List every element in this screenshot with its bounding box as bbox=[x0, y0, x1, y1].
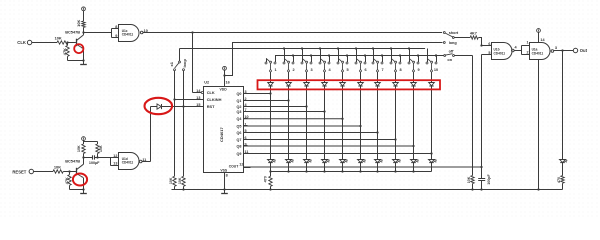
LED LED7 bbox=[375, 160, 381, 163]
wire bbox=[288, 163, 290, 172]
switch SW10 bbox=[427, 49, 429, 63]
wire bus (switch commons) bbox=[275, 55, 444, 57]
wire bbox=[342, 86, 344, 160]
svg-text:470: 470 bbox=[557, 177, 561, 183]
LED LED6 bbox=[358, 160, 364, 163]
power +V terminal bbox=[82, 7, 86, 11]
pin 15 RST wire bbox=[162, 106, 204, 108]
wire bbox=[84, 32, 112, 34]
wire bbox=[306, 72, 308, 83]
svg-text:10K: 10K bbox=[178, 177, 182, 184]
wire (to CD4017 CLK) bbox=[192, 33, 194, 93]
svg-text:long: long bbox=[449, 41, 458, 45]
pin 13 CLKINH wire bbox=[175, 99, 204, 101]
wire bbox=[360, 86, 362, 160]
svg-text:Q8: Q8 bbox=[236, 144, 241, 148]
svg-text:470: 470 bbox=[264, 176, 268, 182]
svg-text:2: 2 bbox=[293, 68, 295, 72]
IC U2 CD4017 body bbox=[204, 87, 244, 173]
svg-text:U2: U2 bbox=[204, 80, 209, 84]
wire bbox=[83, 33, 85, 35]
diode D8 bbox=[375, 83, 381, 86]
diode D7 bbox=[358, 83, 364, 86]
svg-text:VDD: VDD bbox=[220, 88, 228, 92]
svg-text:Q7: Q7 bbox=[236, 138, 241, 142]
svg-text:short: short bbox=[449, 31, 459, 35]
ground bbox=[83, 61, 85, 65]
resistor R12 10K (debounce) bbox=[471, 176, 474, 184]
wire bbox=[454, 37, 470, 39]
svg-text:10: 10 bbox=[434, 68, 438, 72]
svg-text:CD4011: CD4011 bbox=[122, 32, 134, 36]
wire bbox=[395, 163, 397, 172]
diode D10 bbox=[411, 83, 417, 86]
svg-text:10K: 10K bbox=[99, 145, 103, 152]
svg-text:47K: 47K bbox=[62, 48, 67, 55]
pin 14 CLK input bbox=[201, 91, 203, 93]
svg-text:COUT: COUT bbox=[229, 164, 240, 168]
resistor R8 47K (RESET pulldown) bbox=[69, 172, 71, 175]
svg-text:Q4: Q4 bbox=[236, 117, 242, 121]
svg-text:CLK: CLK bbox=[17, 40, 26, 45]
wire bbox=[431, 163, 433, 172]
svg-text:on: on bbox=[447, 58, 452, 62]
wire (U1c out to short contact) bbox=[143, 32, 442, 34]
svg-text:100pF: 100pF bbox=[487, 174, 491, 185]
svg-text:off: off bbox=[449, 50, 455, 54]
annotation red circle (Q2 emitter) bbox=[73, 174, 87, 186]
resistor R1 10K (CLK base) bbox=[57, 41, 68, 44]
svg-text:1: 1 bbox=[275, 68, 277, 72]
svg-text:9: 9 bbox=[418, 68, 420, 72]
VDD pin16 riser bbox=[224, 70, 226, 86]
diode D3 bbox=[286, 83, 292, 86]
wire bbox=[306, 163, 308, 172]
svg-text:4: 4 bbox=[515, 46, 518, 50]
wire bbox=[68, 42, 76, 44]
diode D9 bbox=[393, 83, 399, 86]
wire bbox=[377, 86, 379, 160]
svg-text:CD4011: CD4011 bbox=[122, 161, 134, 165]
svg-text:5: 5 bbox=[347, 68, 349, 72]
svg-text:Q6: Q6 bbox=[236, 131, 241, 135]
op-amp U1d CD4011 NAND inverter bbox=[110, 158, 112, 166]
resistor R7 10K (RESET base) bbox=[53, 170, 63, 173]
power +V (VDD) bbox=[223, 66, 227, 70]
wire bbox=[83, 158, 85, 165]
LED LED10 bbox=[429, 160, 435, 163]
diode D4 bbox=[304, 83, 310, 86]
svg-text:4: 4 bbox=[329, 68, 332, 72]
capacitor C2 100pF bbox=[478, 178, 485, 180]
svg-text:10K: 10K bbox=[169, 177, 173, 184]
LED LED3 bbox=[304, 160, 310, 163]
svg-text:RESET: RESET bbox=[12, 169, 26, 174]
output terminal Out bbox=[573, 48, 577, 52]
svg-text:BC547B: BC547B bbox=[65, 29, 80, 34]
svg-text:7: 7 bbox=[382, 68, 384, 72]
wire bbox=[395, 72, 397, 83]
wire bbox=[83, 178, 85, 190]
svg-text:10K: 10K bbox=[54, 165, 61, 170]
svg-text:Out: Out bbox=[580, 48, 588, 53]
resistor R3 10K (CLK collector) bbox=[82, 21, 85, 27]
svg-text:Q9: Q9 bbox=[236, 152, 241, 156]
switch SW7 bbox=[373, 49, 375, 63]
wire bbox=[32, 42, 57, 44]
wire bbox=[395, 86, 397, 160]
wire (COUT riser) bbox=[481, 55, 483, 168]
svg-text:47K: 47K bbox=[64, 177, 69, 184]
svg-text:12: 12 bbox=[239, 163, 243, 167]
wire bbox=[342, 163, 344, 172]
svg-text:16: 16 bbox=[226, 80, 230, 84]
resistor R5 10K (x1 pulldown) bbox=[173, 176, 176, 186]
svg-text:Q1: Q1 bbox=[236, 99, 241, 103]
capacitor C1 100uF bbox=[84, 157, 93, 159]
wire bbox=[431, 86, 433, 160]
LED LED4 bbox=[322, 160, 328, 163]
LED LED9 bbox=[411, 160, 417, 163]
svg-text:14: 14 bbox=[540, 38, 545, 42]
wire bbox=[377, 72, 379, 83]
svg-text:Q5: Q5 bbox=[236, 124, 241, 128]
wire (U1d out riser) bbox=[142, 161, 151, 163]
ground bbox=[83, 190, 85, 194]
wire bbox=[324, 72, 326, 83]
svg-text:6: 6 bbox=[365, 68, 367, 72]
svg-text:8: 8 bbox=[115, 25, 117, 29]
wire bbox=[270, 86, 272, 160]
svg-text:3: 3 bbox=[311, 68, 313, 72]
switch x1/loop bbox=[179, 49, 181, 62]
svg-text:BC547B: BC547B bbox=[65, 159, 80, 164]
svg-text:Q0: Q0 bbox=[236, 92, 241, 96]
svg-text:VSS: VSS bbox=[220, 168, 228, 172]
switch SW6 bbox=[356, 49, 358, 63]
svg-text:CLKINH: CLKINH bbox=[207, 97, 222, 102]
svg-text:6: 6 bbox=[488, 42, 490, 46]
svg-text:13: 13 bbox=[196, 96, 200, 100]
wire bbox=[83, 48, 85, 60]
LED LED8 bbox=[393, 160, 399, 163]
diode D5 bbox=[322, 83, 328, 86]
svg-text:3: 3 bbox=[555, 46, 557, 50]
wire (LED cathode bus) bbox=[271, 171, 432, 173]
wire bbox=[479, 38, 482, 46]
svg-text:CD4017: CD4017 bbox=[219, 127, 224, 142]
annotation red ellipse (diode D1) bbox=[145, 98, 173, 114]
wire bbox=[270, 163, 272, 172]
switch off/on bbox=[444, 55, 446, 57]
wire bbox=[324, 86, 326, 160]
switch short/long bbox=[443, 32, 445, 34]
resistor R10 10K (U1d pullup) bbox=[97, 142, 99, 145]
resistor R13 470 (output LED) bbox=[562, 163, 564, 176]
svg-text:CD4011: CD4011 bbox=[532, 52, 544, 56]
svg-text:12: 12 bbox=[113, 154, 117, 158]
power +V (RESET) bbox=[82, 137, 86, 141]
wire bbox=[455, 55, 473, 57]
wire bbox=[562, 51, 564, 160]
wire bbox=[306, 86, 308, 160]
wire bbox=[431, 72, 433, 83]
wire bbox=[84, 141, 98, 143]
wire (x1 to CLKINH) bbox=[174, 71, 176, 177]
svg-text:2: 2 bbox=[527, 50, 529, 54]
wire (U1a pin7 ground) bbox=[538, 60, 540, 190]
wire bbox=[63, 171, 76, 173]
LED LED1 bbox=[268, 160, 274, 163]
svg-text:9: 9 bbox=[115, 34, 117, 38]
diode D2 bbox=[268, 83, 274, 86]
wire bbox=[324, 163, 326, 172]
node C10 junction bbox=[435, 54, 437, 56]
switch SW1 bbox=[266, 58, 268, 62]
svg-text:15: 15 bbox=[196, 103, 200, 107]
diode D11 bbox=[429, 83, 435, 86]
resistor R6 10K (loop pulldown) bbox=[182, 176, 185, 186]
wire (loop to RST) bbox=[183, 71, 185, 177]
LED LED11 (output indicator) bbox=[560, 160, 566, 163]
LED LED5 bbox=[340, 160, 346, 163]
annotation red box (diode row) bbox=[258, 80, 441, 89]
svg-text:13: 13 bbox=[113, 162, 117, 166]
wire bbox=[413, 163, 415, 172]
resistor R2 47K (CLK pulldown) bbox=[67, 43, 69, 46]
wire bbox=[288, 86, 290, 160]
svg-text:100µF: 100µF bbox=[89, 161, 100, 165]
wire bbox=[413, 86, 415, 160]
svg-text:10K: 10K bbox=[76, 19, 81, 26]
wire bbox=[377, 163, 379, 172]
op-amp U1a CD4011 NAND inverter bbox=[521, 46, 523, 55]
wire bbox=[360, 72, 362, 83]
pin 8 VSS ground bbox=[224, 173, 226, 190]
svg-text:10K: 10K bbox=[55, 36, 62, 41]
wire (ground rail) bbox=[172, 189, 563, 191]
wire bbox=[360, 163, 362, 172]
svg-text:loop: loop bbox=[182, 59, 187, 68]
svg-text:CD4011: CD4011 bbox=[494, 52, 506, 56]
power +V (U1a pin14) bbox=[538, 32, 540, 42]
wire (long line from VDD) bbox=[225, 43, 443, 76]
svg-text:10K: 10K bbox=[77, 145, 81, 152]
resistor R4 470 (LED common) bbox=[270, 172, 272, 177]
resistor R11 4K7 bbox=[470, 36, 478, 39]
wire bbox=[34, 171, 54, 173]
wire bbox=[514, 50, 521, 52]
resistor R9 10K (RESET collector) bbox=[83, 154, 85, 158]
switch SW9 bbox=[409, 49, 411, 63]
svg-text:5: 5 bbox=[488, 51, 490, 55]
switch SW8 bbox=[391, 49, 393, 63]
diode D1 (reset pulse) bbox=[157, 104, 161, 109]
wire bus (step select) bbox=[180, 48, 426, 50]
svg-text:Q2: Q2 bbox=[236, 105, 241, 109]
svg-text:1: 1 bbox=[527, 40, 529, 44]
LED LED2 bbox=[286, 160, 292, 163]
switch SW5 bbox=[338, 49, 340, 63]
svg-text:8: 8 bbox=[400, 68, 402, 72]
svg-text:x1: x1 bbox=[169, 61, 174, 66]
svg-text:10K: 10K bbox=[467, 176, 471, 183]
switch SW2 bbox=[284, 49, 286, 63]
switch SW3 bbox=[302, 49, 304, 63]
wire bbox=[67, 56, 69, 60]
wire bbox=[554, 50, 574, 52]
switch SW4 bbox=[320, 49, 322, 63]
svg-text:Q3: Q3 bbox=[236, 110, 241, 114]
svg-text:8: 8 bbox=[226, 174, 228, 178]
annotation red circle (Q1 emitter) bbox=[74, 44, 83, 53]
diode D6 bbox=[340, 83, 346, 86]
svg-text:CLK: CLK bbox=[207, 90, 215, 95]
wire bbox=[270, 72, 272, 83]
wire bbox=[413, 72, 415, 83]
svg-text:4K7: 4K7 bbox=[470, 31, 477, 35]
wire bbox=[288, 72, 290, 83]
svg-text:RST: RST bbox=[207, 104, 215, 109]
wire bbox=[342, 72, 344, 83]
wire bbox=[69, 185, 71, 189]
op-amp U1c CD4011 NAND inverter bbox=[111, 29, 113, 38]
